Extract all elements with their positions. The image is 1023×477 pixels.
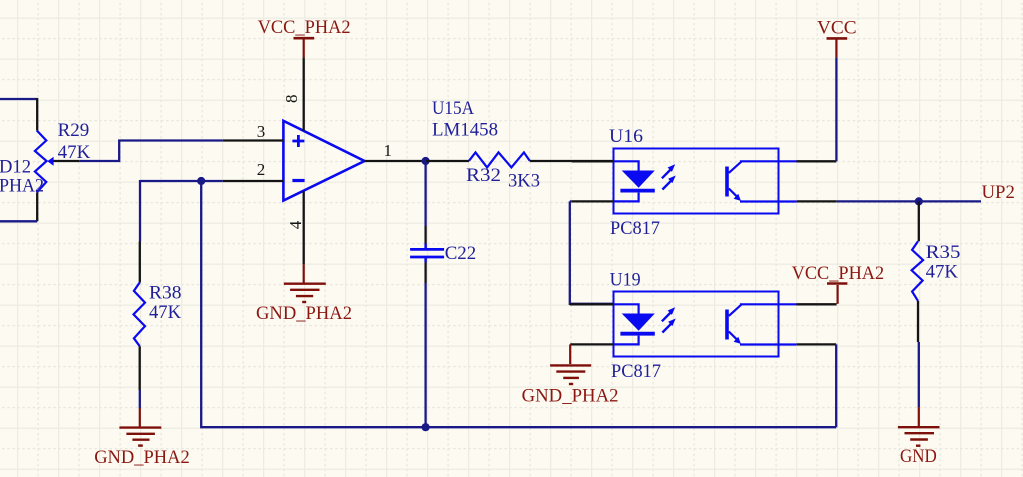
- label R32: [466, 165, 501, 186]
- pin U16 collector: [797, 160, 837, 162]
- svg-text:GND_PHA2: GND_PHA2: [256, 303, 352, 324]
- wire: [140, 180, 223, 182]
- wire: [139, 180, 141, 242]
- pin number 4: [286, 220, 305, 229]
- pin U16 emitter: [797, 200, 837, 202]
- pin number 8: [282, 95, 301, 104]
- svg-text:R32: R32: [466, 165, 501, 186]
- svg-text:3: 3: [257, 122, 266, 141]
- ground GND_PHA2 (op-amp pin 4): [284, 264, 326, 302]
- net label GND_PHA2: [94, 447, 190, 468]
- capacitor C22: [410, 226, 444, 283]
- potentiometer R29: [35, 98, 79, 221]
- svg-text:VCC_PHA2: VCC_PHA2: [258, 17, 351, 38]
- label R38: [149, 283, 182, 304]
- value 47K: [58, 142, 91, 163]
- svg-text:D12: D12: [0, 157, 31, 178]
- resistor R38: [134, 242, 146, 391]
- wire (U19 emitter to bottom rail): [835, 344, 837, 427]
- designator U19: [610, 270, 641, 291]
- label R29: [58, 120, 90, 141]
- comment PC817: [610, 218, 660, 239]
- svg-text:C22: C22: [445, 243, 477, 264]
- wire bottom rail: [426, 426, 837, 428]
- svg-text:8: 8: [282, 95, 301, 104]
- net label VCC: [817, 17, 857, 38]
- ground GND: [898, 407, 940, 446]
- node junction (output): [422, 157, 430, 165]
- svg-text:GND_PHA2: GND_PHA2: [522, 386, 619, 407]
- svg-text:47K: 47K: [926, 261, 959, 282]
- label PHA2: [0, 176, 44, 197]
- comment LM1458: [432, 120, 498, 141]
- wire: [79, 141, 223, 162]
- label D12: [0, 157, 31, 178]
- resistor R35: [912, 201, 924, 342]
- comment PC817: [611, 361, 661, 382]
- pin 3: [223, 139, 284, 141]
- pin U16 cathode: [572, 200, 614, 202]
- svg-text:UP2: UP2: [982, 182, 1015, 203]
- designator U16: [609, 126, 643, 147]
- wire: [424, 283, 426, 427]
- svg-text:GND_PHA2: GND_PHA2: [94, 447, 190, 468]
- net label GND: [900, 446, 937, 467]
- pin U19 collector: [797, 303, 837, 305]
- svg-text:R35: R35: [926, 242, 961, 263]
- wire: [835, 57, 837, 161]
- svg-text:U16: U16: [609, 126, 643, 147]
- optocoupler U19: [614, 292, 797, 357]
- svg-text:R29: R29: [58, 120, 90, 141]
- svg-text:PC817: PC817: [611, 361, 661, 382]
- pin U19 cathode: [570, 343, 613, 345]
- net label VCC_PHA2: [258, 17, 351, 38]
- label C22: [445, 243, 477, 264]
- svg-text:VCC_PHA2: VCC_PHA2: [792, 263, 885, 284]
- value 47K: [926, 261, 959, 282]
- pin 2: [223, 180, 284, 182]
- pin number 3: [257, 122, 266, 141]
- power port VCC_PHA2 (op-amp): [294, 38, 315, 57]
- svg-text:LM1458: LM1458: [432, 120, 498, 141]
- svg-text:VCC: VCC: [817, 17, 857, 38]
- pin U16 anode: [572, 160, 614, 162]
- pin 4: [303, 191, 305, 264]
- op-amp U15A: [283, 121, 364, 201]
- wire: [570, 201, 614, 303]
- power port VCC_PHA2 (U19): [827, 284, 847, 304]
- value 47K: [149, 302, 181, 323]
- node junction (UP2 / R35): [915, 197, 923, 205]
- wire: [139, 390, 141, 408]
- ground GND_PHA2 (R38): [119, 408, 161, 446]
- wire: [837, 200, 981, 202]
- power port VCC: [827, 38, 848, 57]
- net label UP2: [982, 182, 1015, 203]
- wire: [201, 181, 425, 427]
- svg-text:U19: U19: [610, 270, 641, 291]
- svg-text:R38: R38: [149, 283, 182, 304]
- wire: [918, 342, 920, 407]
- svg-text:47K: 47K: [149, 302, 181, 323]
- wire: [424, 161, 426, 226]
- svg-text:3K3: 3K3: [508, 171, 540, 192]
- node junction: [197, 177, 205, 185]
- svg-text:PHA2: PHA2: [0, 176, 44, 197]
- wire (U16 lower-left pin to corner): [570, 200, 572, 202]
- wire: [0, 220, 37, 222]
- ground GND_PHA2 (U19 cathode): [550, 344, 591, 384]
- node junction (bottom rail): [422, 423, 430, 431]
- net label GND_PHA2: [522, 386, 619, 407]
- pin U19 anode: [570, 303, 614, 305]
- designator U15A: [432, 98, 474, 119]
- pin 8: [303, 57, 305, 130]
- svg-text:4: 4: [286, 220, 305, 229]
- net label VCC_PHA2: [792, 263, 885, 284]
- svg-text:U15A: U15A: [432, 98, 474, 119]
- optocoupler U16: [614, 149, 797, 214]
- pin number 2: [257, 160, 266, 179]
- svg-text:GND: GND: [900, 446, 937, 467]
- pin U19 emitter: [797, 343, 837, 345]
- pin number 1: [384, 141, 393, 160]
- resistor R32: [426, 152, 613, 167]
- svg-text:PC817: PC817: [610, 218, 660, 239]
- svg-text:1: 1: [384, 141, 393, 160]
- svg-text:2: 2: [257, 160, 266, 179]
- value 3K3: [508, 171, 540, 192]
- label R35: [926, 242, 961, 263]
- net label GND_PHA2: [256, 303, 352, 324]
- pin 1: [365, 160, 426, 162]
- wire: [0, 98, 37, 100]
